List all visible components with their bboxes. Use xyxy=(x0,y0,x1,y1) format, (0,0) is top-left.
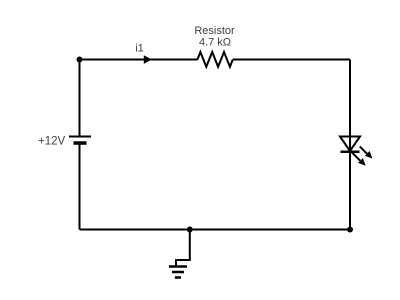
svg-text:i1: i1 xyxy=(135,43,144,55)
LED emission arrow upper xyxy=(360,147,373,159)
ground bar 3 xyxy=(175,276,181,279)
node dot bottom-right xyxy=(347,227,353,233)
svg-text:Resistor: Resistor xyxy=(194,25,235,37)
battery V1 short plate xyxy=(74,141,87,145)
wire left upper (to battery) xyxy=(79,60,81,230)
node dot top-left xyxy=(77,57,83,63)
wire ground drop xyxy=(176,230,190,266)
node dot ground junction xyxy=(187,227,193,233)
battery V1 long plate xyxy=(69,136,91,138)
svg-text:4.7 kΩ: 4.7 kΩ xyxy=(199,37,231,49)
wire bottom xyxy=(80,229,351,231)
svg-text:+12V: +12V xyxy=(38,136,66,148)
LED D1 triangle xyxy=(340,137,360,152)
wire top-left segment xyxy=(80,59,198,61)
LED cathode bar xyxy=(341,150,360,153)
LED emission arrow lower xyxy=(352,153,366,166)
ground bar 1 xyxy=(169,265,187,268)
current arrow i1 xyxy=(144,55,152,64)
ground bar 2 xyxy=(172,271,184,274)
wire right side xyxy=(349,60,351,230)
wire top-right segment xyxy=(233,59,350,61)
resistor R1 zigzag xyxy=(198,52,233,67)
